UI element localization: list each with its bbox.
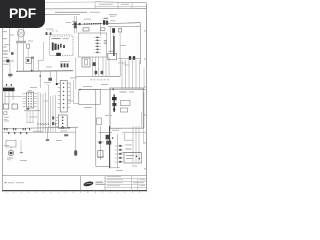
capacitor C808 drops — [31, 57, 34, 72]
wire left drop from badge — [3, 28, 10, 52]
resistor R801 — [27, 44, 30, 58]
diode pack D815 — [93, 62, 96, 66]
revision table — [95, 2, 147, 9]
resistor chain right — [115, 134, 124, 168]
connector CN803 column — [56, 115, 68, 128]
text under rail — [90, 79, 110, 81]
capacitor C821 — [133, 56, 135, 60]
resistor group left of CN803 — [52, 117, 54, 126]
zener ZD801 left — [4, 112, 9, 120]
capacitor C807 — [11, 52, 14, 55]
wire stub right — [143, 126, 145, 144]
wire mid right rail — [122, 152, 142, 154]
arrow marks above CN801 — [6, 84, 12, 86]
diode D810 under box — [56, 53, 61, 56]
diode row D801-D806 — [84, 23, 101, 25]
capacitor C813 — [56, 71, 58, 86]
wire long rail B+ — [76, 58, 120, 90]
IC801 control box — [83, 28, 105, 31]
regulator Q901 cluster — [112, 95, 117, 113]
label Q801 — [7, 158, 13, 161]
label text near relay — [109, 14, 117, 17]
primary section box — [79, 33, 107, 57]
diode D807 — [3, 59, 14, 62]
wire drop x76 — [75, 128, 77, 156]
connector CN801 — [3, 87, 15, 91]
capacitor C820 — [129, 56, 131, 60]
title block table — [81, 176, 147, 191]
wire sense drop — [20, 140, 23, 153]
wire right rails — [122, 128, 146, 132]
line filter LF801 — [17, 28, 24, 41]
wire drop to IC803 — [109, 26, 111, 53]
wire link main cap — [113, 33, 115, 36]
capacitor C809 beside box — [46, 32, 52, 35]
snubber box Q801 — [6, 140, 16, 147]
wire secondary rail — [16, 70, 73, 73]
wire opto feedback pair — [70, 80, 79, 104]
capacitor C806 across filter — [16, 41, 26, 43]
wire long rail B2 — [79, 88, 146, 90]
wire output row — [118, 57, 140, 59]
regulator VR901 on line — [97, 118, 102, 124]
wire diode down — [9, 63, 11, 79]
sheet title text — [55, 12, 100, 13]
wire drop x100 — [100, 126, 102, 160]
wire AC top rail — [44, 14, 80, 16]
manufacturer logo — [83, 181, 104, 187]
resistor R802 — [8, 74, 12, 76]
component value labels — [4, 19, 138, 171]
junction dots on bus — [37, 123, 56, 124]
connector CN802 column — [58, 81, 71, 113]
resistor R835 — [98, 141, 105, 157]
border frame — [2, 2, 147, 193]
wire rail drop a — [39, 71, 41, 88]
capacitor marks second rail — [8, 132, 27, 134]
box outline mid — [79, 89, 100, 105]
resistor R820 — [3, 104, 9, 109]
box IC803 — [108, 51, 117, 60]
wire bus step — [47, 84, 49, 86]
wire right inner verticals — [142, 92, 145, 128]
capacitor C801 — [79, 23, 81, 25]
wire x144 segment — [143, 68, 145, 89]
fuse F801 — [72, 22, 77, 26]
wire filter lower rail — [108, 25, 140, 27]
wire AC rail to filter — [72, 23, 140, 25]
relay RY801 — [82, 58, 90, 67]
transformer T801 windings — [52, 38, 70, 51]
PDF badge overlay — [0, 0, 45, 28]
wire drop x47 — [46, 128, 49, 141]
transistor Q801 — [8, 147, 13, 156]
output rail with fuses row — [3, 127, 79, 133]
dots in box — [126, 149, 141, 160]
wire right rail drop — [139, 23, 141, 64]
box rounded corner — [125, 133, 134, 140]
wire box corner — [96, 165, 110, 167]
resistor R830 — [64, 134, 68, 136]
capacitor row labels — [33, 131, 43, 132]
sub board box outline — [110, 88, 143, 128]
wire CN801 drops — [5, 91, 22, 104]
wire bottom rail right — [98, 132, 112, 134]
capacitor C803 filter — [112, 28, 115, 33]
resistor block in box — [121, 101, 131, 113]
capacitor C805 main — [113, 36, 115, 56]
transformer box T801 outline — [50, 36, 74, 56]
wire far right verticals — [133, 126, 139, 163]
wire left vertical drop — [75, 57, 77, 90]
wire hv line — [95, 90, 97, 167]
transistor Q802 cluster — [106, 135, 114, 145]
wire primary vertical — [74, 16, 77, 33]
drawing note text — [5, 182, 25, 183]
wire bus verticals — [38, 85, 56, 133]
wire vertical bus pack — [122, 60, 140, 90]
wire verticals centre — [93, 57, 110, 76]
polarity marks — [52, 30, 57, 33]
resistor ladder R810-R813 — [95, 24, 108, 53]
junction dots bottom rail — [61, 127, 70, 129]
wire bottom join — [110, 167, 120, 169]
wire under IC901 — [24, 111, 40, 122]
wire heavy vertical — [109, 126, 111, 168]
label in sub board — [120, 92, 135, 93]
bridge rectifier BD801 — [103, 18, 108, 25]
snubber box top — [45, 33, 71, 35]
capacitor C830 — [74, 151, 77, 156]
capacitor C810 box — [26, 58, 32, 64]
IC901 dual-row IC — [23, 90, 38, 109]
capacitor C804 filter — [119, 28, 122, 58]
wire step to transformer — [38, 42, 43, 71]
resistor R821 — [12, 104, 18, 109]
varistor VR801 — [3, 47, 8, 55]
capacitor C812 — [48, 71, 52, 81]
label D807 value — [3, 63, 9, 66]
secondary diodes D811-D813 — [60, 62, 70, 68]
box bottom right — [124, 153, 142, 163]
wire filter drops — [17, 43, 23, 71]
